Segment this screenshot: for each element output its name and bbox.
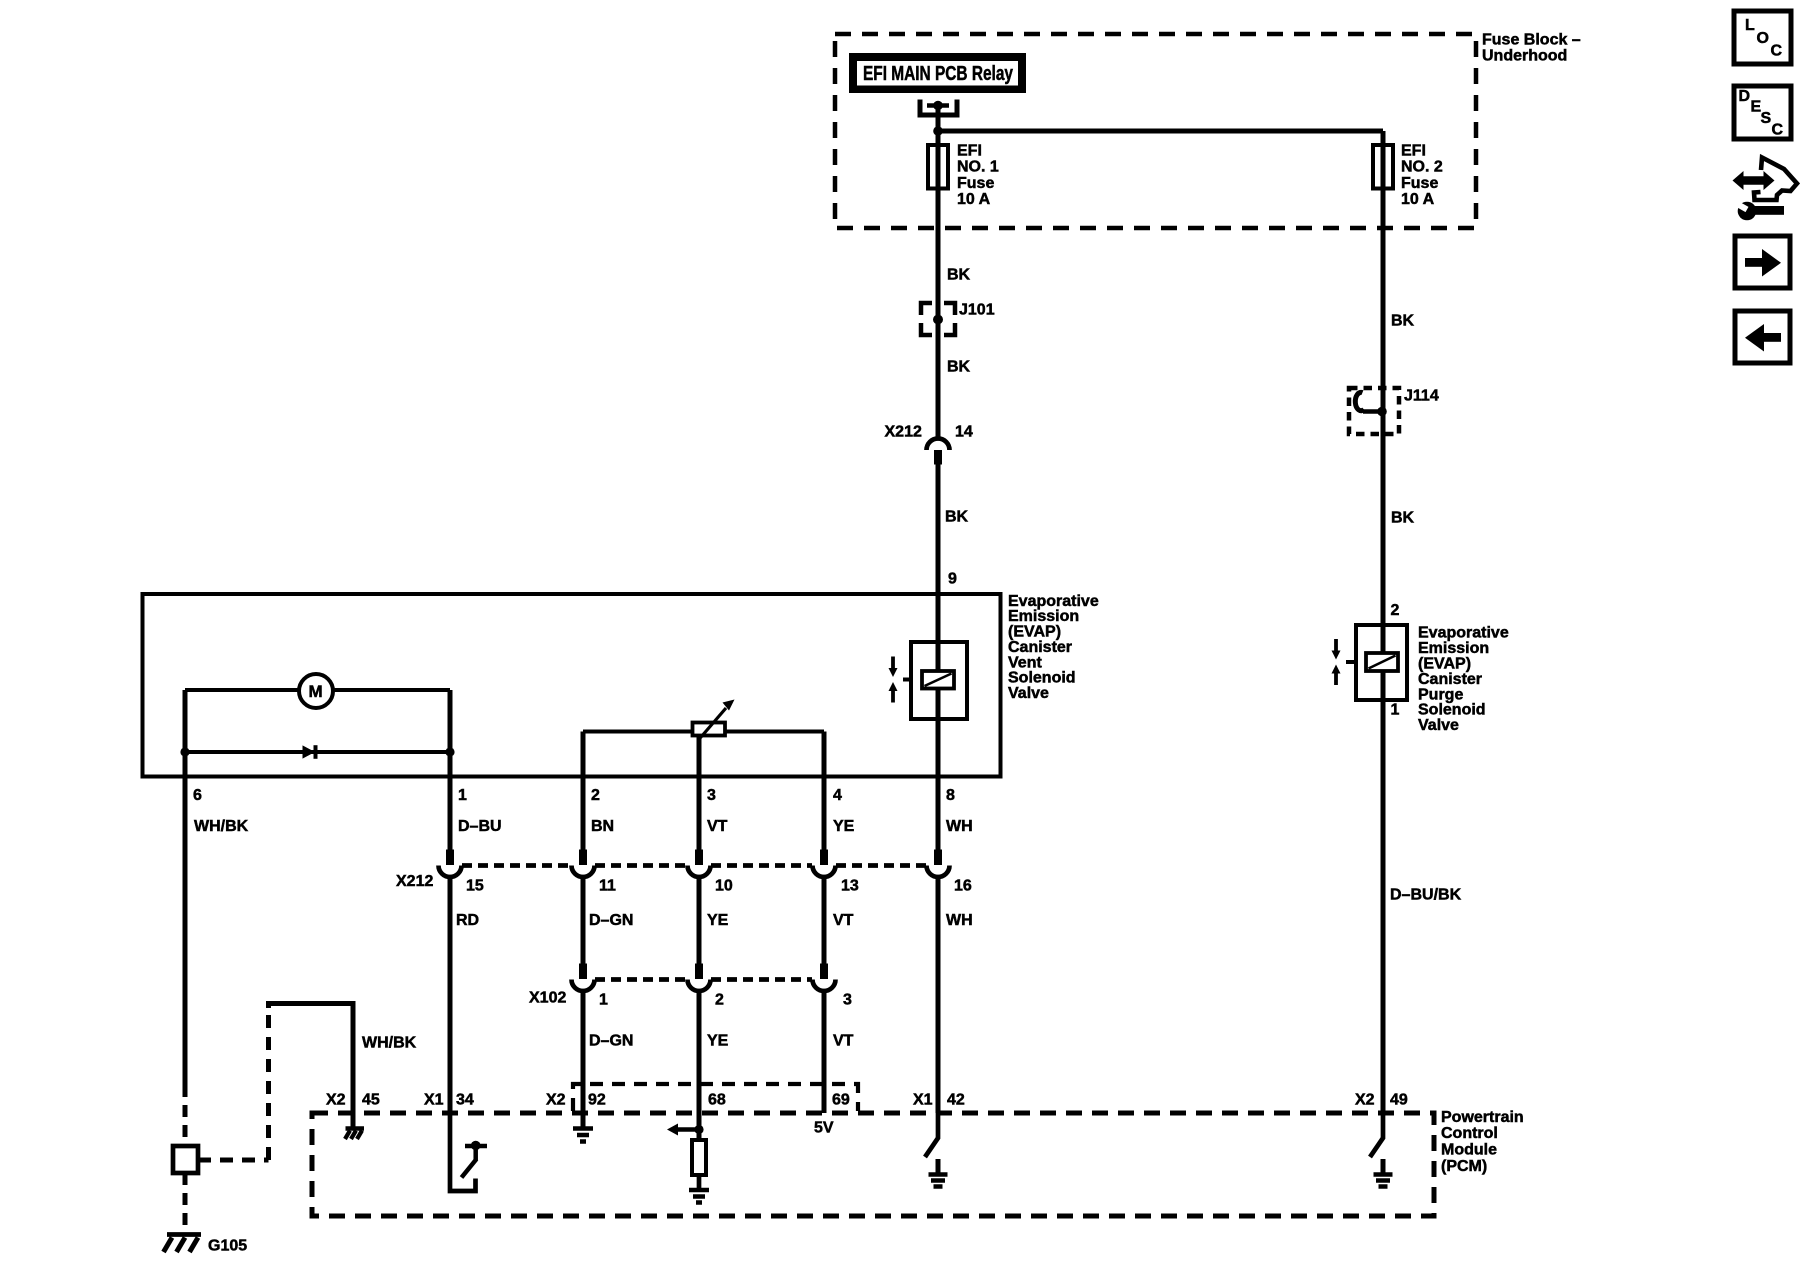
wire colors row 3	[589, 1033, 854, 1050]
wire VT lower	[822, 991, 827, 1113]
svg-text:RD: RD	[456, 912, 479, 929]
wire WH/BK pin6 down solid	[183, 777, 188, 1085]
svg-text:BK: BK	[945, 509, 969, 526]
svg-text:BK: BK	[947, 359, 971, 376]
svg-text:M: M	[309, 682, 323, 701]
relay contact symbol	[920, 100, 957, 116]
svg-text:49: 49	[1390, 1092, 1408, 1109]
fuse EFI NO.1 10A	[928, 145, 948, 189]
svg-text:D–GN: D–GN	[589, 1033, 633, 1050]
wire pot right vertical pin4	[822, 732, 827, 778]
svg-text:X2: X2	[1355, 1092, 1375, 1109]
svg-text:YE: YE	[707, 912, 729, 929]
wire pot wiper pin3	[697, 736, 702, 778]
purge solenoid coil	[1366, 653, 1398, 671]
wire diode branch	[185, 750, 450, 754]
svg-text:C: C	[1772, 122, 1784, 139]
wire D-GN	[581, 877, 586, 964]
svg-text:O: O	[1757, 30, 1769, 47]
svg-text:EFI MAIN PCB Relay: EFI MAIN PCB Relay	[863, 63, 1014, 85]
junction node	[933, 126, 943, 136]
svg-text:L: L	[1745, 17, 1755, 34]
icon LOC box	[1734, 11, 1791, 64]
icon forward arrow box	[1735, 236, 1790, 288]
wire BK fuse1 down to X212-14	[936, 226, 941, 439]
svg-text:X1: X1	[913, 1092, 933, 1109]
wire BK fuse2 down to purge solenoid	[1381, 226, 1386, 1113]
pin 49 ground	[1381, 1159, 1386, 1173]
connector X212 pin 10	[695, 850, 703, 866]
svg-text:Powertrain: Powertrain	[1441, 1109, 1524, 1126]
icon swap outline arrow	[1754, 158, 1797, 201]
svg-text:11: 11	[599, 878, 616, 895]
svg-text:92: 92	[588, 1092, 606, 1109]
connector X102 pin 2	[695, 964, 703, 980]
wire motor loop left vertical	[183, 690, 188, 777]
wire RD	[448, 877, 453, 1113]
wire relay to junction	[936, 106, 941, 132]
svg-text:68: 68	[708, 1092, 726, 1109]
svg-text:BK: BK	[1391, 510, 1415, 527]
svg-text:9: 9	[948, 571, 957, 588]
wire solid corner to X2 45	[269, 1004, 354, 1129]
wire colors row 1	[194, 818, 973, 835]
inline connector square	[173, 1146, 198, 1173]
pin labels below vent box	[193, 787, 955, 804]
motor M	[299, 674, 333, 708]
svg-text:G105: G105	[208, 1237, 247, 1254]
resistor pin 68	[692, 1140, 706, 1175]
pin 45 chassis ground	[346, 1126, 365, 1131]
svg-text:3: 3	[843, 992, 852, 1009]
wire motor loop right vertical	[448, 690, 453, 777]
icon wrench	[1738, 202, 1757, 221]
wire dashed below square to G105	[183, 1173, 188, 1231]
wire D-GN lower	[581, 991, 586, 1127]
svg-text:Control: Control	[1441, 1125, 1498, 1142]
svg-text:3: 3	[707, 787, 716, 804]
svg-text:D–BU: D–BU	[458, 818, 502, 835]
svg-text:WH: WH	[946, 912, 973, 929]
svg-text:42: 42	[947, 1092, 965, 1109]
svg-text:Valve: Valve	[1008, 685, 1049, 702]
svg-text:1: 1	[599, 992, 608, 1009]
pin 68 node and arrow	[694, 1125, 703, 1134]
svg-text:2: 2	[715, 992, 724, 1009]
svg-text:BK: BK	[947, 267, 971, 284]
node diode left	[180, 747, 189, 756]
svg-text:WH/BK: WH/BK	[194, 818, 249, 835]
wire WH	[936, 877, 941, 1113]
node diode right	[445, 747, 454, 756]
svg-text:10 A: 10 A	[957, 191, 991, 208]
svg-text:J114: J114	[1404, 388, 1439, 405]
svg-text:Fuse Block –: Fuse Block –	[1482, 31, 1581, 48]
svg-text:14: 14	[955, 423, 973, 440]
potentiometer arrow	[698, 708, 726, 741]
svg-text:10 A: 10 A	[1401, 191, 1435, 208]
svg-text:X212: X212	[885, 423, 922, 440]
icon swap double arrow	[1733, 171, 1775, 190]
connector X102 row dashed line	[595, 977, 812, 982]
svg-text:13: 13	[841, 878, 859, 895]
wire colors row 2	[456, 912, 973, 929]
vent valve stub	[903, 678, 911, 682]
pin 92 ground	[573, 1129, 593, 1142]
svg-text:D–BU/BK: D–BU/BK	[1390, 886, 1462, 903]
vent solenoid coil	[922, 671, 954, 689]
pin 68 ground	[689, 1190, 709, 1203]
svg-text:BN: BN	[591, 818, 614, 835]
svg-text:4: 4	[833, 787, 842, 804]
svg-text:10: 10	[715, 878, 733, 895]
EFI MAIN PCB Relay label box	[849, 53, 1026, 93]
svg-text:C: C	[1771, 43, 1783, 60]
wire BK to vent solenoid	[936, 465, 941, 850]
label Evaporative Emission (EVAP) Canister Purge Solenoid Valve	[1418, 625, 1509, 734]
connector X212 pin 15	[446, 850, 454, 866]
svg-text:Fuse: Fuse	[1401, 175, 1438, 192]
wire junction to fuse2 drop	[938, 129, 1383, 134]
splice J101	[921, 303, 955, 335]
diode	[303, 745, 316, 758]
svg-text:WH: WH	[946, 818, 973, 835]
label Powertrain Control Module (PCM)	[1441, 1109, 1524, 1175]
wire dashed elbow from square to X2 45	[198, 1158, 269, 1163]
svg-text:VT: VT	[833, 1033, 854, 1050]
pin 42 switch blade	[925, 1113, 938, 1157]
wire motor top horizontal	[185, 688, 450, 692]
wire VT	[822, 877, 827, 964]
vent solenoid box	[911, 642, 967, 719]
svg-text:NO. 1: NO. 1	[957, 159, 999, 176]
svg-text:2: 2	[1391, 602, 1400, 619]
svg-text:8: 8	[946, 787, 955, 804]
svg-text:5V: 5V	[814, 1120, 834, 1137]
svg-text:Module: Module	[1441, 1142, 1497, 1159]
wire BN pin2 down	[581, 777, 586, 850]
connector X212 row dashed line	[462, 863, 926, 868]
PCM dashed box	[312, 1113, 1434, 1216]
purge valve stub	[1346, 660, 1356, 664]
label Evaporative Emission (EVAP) Canister Vent Solenoid Valve	[1008, 593, 1099, 702]
ground G105	[167, 1232, 201, 1237]
svg-text:BK: BK	[1391, 313, 1415, 330]
wire YE lower	[697, 991, 702, 1140]
wire WH/BK dashed to inline connector	[183, 1085, 188, 1146]
svg-text:D–GN: D–GN	[589, 912, 633, 929]
svg-text:(PCM): (PCM)	[1441, 1158, 1487, 1175]
svg-text:WH/BK: WH/BK	[362, 1034, 417, 1051]
svg-text:Valve: Valve	[1418, 717, 1459, 734]
pin 34 driver switch	[465, 1144, 487, 1149]
svg-text:Fuse: Fuse	[957, 175, 994, 192]
svg-text:NO. 2: NO. 2	[1401, 159, 1443, 176]
svg-text:16: 16	[954, 878, 972, 895]
pin 49 switch blade	[1370, 1113, 1383, 1157]
svg-text:45: 45	[362, 1092, 380, 1109]
connector X212 pin 16	[934, 850, 942, 866]
svg-text:VT: VT	[833, 912, 854, 929]
fuse EFI NO.2 10A	[1373, 145, 1393, 189]
vent valve arrows	[889, 657, 898, 703]
wire YE pin4 down	[822, 777, 827, 850]
svg-text:X1: X1	[424, 1092, 444, 1109]
svg-text:D: D	[1739, 88, 1751, 105]
svg-text:34: 34	[456, 1092, 474, 1109]
wire D-BU pin1 down	[448, 777, 453, 850]
icon DESC box	[1734, 86, 1791, 139]
svg-text:1: 1	[458, 787, 467, 804]
svg-text:X212: X212	[396, 873, 433, 890]
wire potentiometer horizontal	[583, 730, 824, 734]
wire WH pin8 down	[936, 777, 941, 850]
icon back arrow box	[1735, 311, 1790, 363]
svg-text:1: 1	[1391, 702, 1400, 719]
svg-text:15: 15	[466, 878, 484, 895]
wire VT pin3 down	[697, 777, 702, 850]
connector X212 pin 14	[927, 439, 950, 451]
connector X212 pin 13	[820, 850, 828, 866]
potentiometer body	[693, 723, 726, 736]
EVAP canister vent solenoid valve outer box	[143, 594, 1001, 777]
svg-text:X2: X2	[546, 1092, 566, 1109]
wire pot left vertical pin2	[581, 732, 586, 778]
pin 42 ground	[936, 1159, 941, 1173]
purge valve arrows	[1332, 639, 1341, 685]
internal connector dotted box X2 92-68-69	[573, 1084, 858, 1111]
svg-text:X102: X102	[529, 989, 566, 1006]
connector X102 pin 1	[579, 964, 587, 980]
svg-text:J101: J101	[959, 302, 995, 319]
EVAP canister purge solenoid valve box	[1356, 625, 1407, 700]
wire YE	[697, 877, 702, 964]
svg-text:Underhood: Underhood	[1482, 47, 1567, 64]
svg-text:69: 69	[832, 1092, 850, 1109]
svg-text:X2: X2	[326, 1092, 346, 1109]
svg-text:S: S	[1761, 110, 1772, 127]
connector X102 pin 3	[820, 964, 828, 980]
svg-text:VT: VT	[707, 818, 728, 835]
connector X212 pin 11	[579, 850, 587, 866]
svg-text:YE: YE	[707, 1033, 729, 1050]
fuse block underhood dashed box	[835, 34, 1476, 228]
svg-text:2: 2	[591, 787, 600, 804]
svg-text:6: 6	[193, 787, 202, 804]
splice J114	[1349, 388, 1399, 434]
svg-text:YE: YE	[833, 818, 855, 835]
svg-text:EFI: EFI	[957, 142, 982, 159]
svg-text:EFI: EFI	[1401, 142, 1426, 159]
